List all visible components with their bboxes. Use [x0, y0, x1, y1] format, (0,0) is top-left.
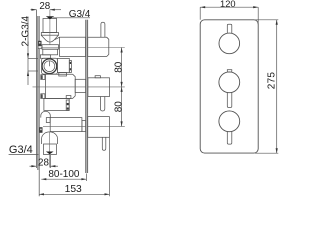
trim plate: [200, 20, 258, 153]
tier2 bump: [66, 96, 71, 99]
svg-text:2-G3/4: 2-G3/4: [20, 15, 31, 46]
dim 120 extensions: [199, 7, 201, 20]
dim 153 line: [39, 193, 110, 195]
svg-text:153: 153: [65, 184, 82, 195]
svg-text:80-100: 80-100: [48, 169, 80, 180]
dim 275 arrows: [276, 20, 278, 153]
bracket screw bottom: [39, 127, 42, 133]
outlet flow arrow: [46, 152, 54, 155]
bracket back line: [35, 10, 37, 169]
dome bump: [41, 111, 51, 117]
middle neck to wall: [75, 79, 86, 92]
tier2 block: [44, 99, 69, 111]
dim 275 extensions: [255, 19, 279, 21]
port3 centerline: [43, 125, 125, 127]
dimension 28 top text: [39, 1, 50, 12]
upper body block: [60, 37, 86, 56]
port1 centerline: [41, 47, 125, 49]
outlet centerline: [49, 132, 51, 168]
dim 80 arrows: [121, 48, 123, 127]
dim 80-100 right extension: [85, 174, 87, 182]
wall plate edges: [85, 20, 87, 173]
bracket screw top: [38, 41, 41, 46]
svg-text:275: 275: [267, 72, 278, 90]
port3 rear block: [88, 117, 110, 138]
dim 80-100 arrows: [41, 178, 86, 180]
upper body chamfer: [55, 37, 60, 39]
top pipe collar: [41, 33, 58, 36]
knob bottom stem: [227, 131, 232, 144]
dim 28 bottom text: [38, 157, 49, 168]
2-G3/4 tick upper port: [28, 57, 38, 59]
dim 120 line: [200, 6, 258, 8]
svg-text:120: 120: [220, 0, 236, 9]
knob top stem: [227, 24, 232, 33]
dim 80 text upper: [113, 61, 124, 73]
housing screw strip: [69, 61, 71, 73]
middle rear block: [88, 78, 110, 97]
top inlet pipe: [43, 19, 57, 33]
side port circle inner: [44, 61, 55, 72]
outlet arch: [42, 132, 58, 144]
svg-text:G3/4: G3/4: [9, 144, 33, 156]
top pipe funnel arc: [41, 35, 58, 42]
knob bottom circle: [219, 111, 240, 132]
top pipe centerline: [49, 10, 51, 45]
dim 275 line: [276, 20, 278, 153]
cartridge shoulder: [40, 55, 50, 59]
right extension line 153: [108, 137, 110, 196]
knob middle nub: [227, 70, 232, 72]
2-G3/4 arrows: [27, 53, 29, 76]
knob middle circle: [219, 72, 240, 93]
G3/4 top leader line: [53, 17, 90, 19]
G3/4 top label: [69, 9, 91, 20]
dim 80-100 line: [41, 178, 86, 180]
outlet pipe: [44, 144, 57, 155]
bottom step rect: [46, 118, 50, 123]
dim 153 arrows: [39, 193, 110, 195]
port1 rear block: [88, 37, 109, 56]
dimension 28 top line: [31, 9, 62, 11]
dim 28 bottom line: [30, 155, 59, 168]
middle body block: [46, 74, 76, 98]
bracket plate double line: [38, 16, 39, 170]
dim 153 text: [65, 184, 82, 195]
G3/4 bottom label: [9, 144, 33, 156]
middle centerline: [33, 86, 125, 88]
dim 80 text lower: [113, 101, 124, 113]
dim 120 arrows: [200, 6, 258, 8]
small block below housing: [59, 73, 67, 77]
knob top circle: [219, 33, 240, 54]
port3 neck: [82, 121, 86, 132]
middle drop pipe: [100, 97, 104, 112]
svg-text:28: 28: [39, 1, 50, 12]
wall plate fill: [86, 20, 88, 173]
dim 120 text: [220, 0, 236, 9]
cartridge flange: [42, 58, 58, 74]
2-G3/4 tick lower port: [28, 70, 38, 72]
svg-text:80: 80: [113, 101, 124, 113]
middle clip upper: [41, 75, 45, 80]
housing right of circle: [57, 58, 69, 72]
dim 80 vertical line: [121, 48, 123, 127]
dim 28 bottom arrows: [31, 165, 55, 167]
G3/4 bottom leader: [9, 154, 39, 156]
dim 275 text: [267, 72, 278, 90]
inlet flow arrow: [46, 16, 54, 19]
side port circle outer: [42, 59, 57, 74]
dimension 28 top arrows: [31, 9, 54, 11]
dim 80-100 text: [48, 169, 80, 180]
riser pipe: [101, 22, 105, 37]
port3 drop pipe: [102, 137, 106, 150]
2-G3/4 label rotated: [20, 15, 31, 46]
middle clip lower: [41, 94, 45, 99]
side port key line: [48, 61, 50, 66]
tier2 screw strip: [66, 100, 69, 110]
middle block nub: [95, 76, 100, 78]
2-G3/4 leader vertical: [27, 17, 29, 86]
svg-text:80: 80: [113, 61, 124, 73]
bottom wide block: [50, 118, 82, 132]
svg-text:28: 28: [38, 157, 49, 168]
knob middle stem: [227, 92, 232, 107]
